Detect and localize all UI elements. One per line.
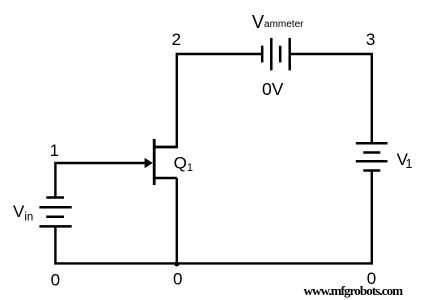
gate arrowhead of transistor Q1 [145,158,153,168]
wire: source of Q1 down to bottom rail [176,178,178,263]
svg-text:0V: 0V [262,79,284,99]
battery V_ammeter (0V source) plates [262,38,290,71]
wire: top rail from ammeter battery to node 3 and down to V1 [290,54,372,143]
svg-text:www.mfgrobots.com: www.mfgrobots.com [304,283,404,298]
wire: from V1 bottom down, bottom rail, and up to Vin bottom [55,171,371,264]
svg-text:1: 1 [50,141,59,160]
transistor Q1 source tap [154,177,177,179]
svg-text:3: 3 [366,30,375,49]
svg-text:0: 0 [173,270,182,289]
transistor Q1 channel bar [153,139,156,185]
svg-text:0: 0 [51,270,60,289]
transistor Q1 drain tap [154,146,177,148]
battery V1 plates [356,143,388,170]
wire: drain up from Q1 to node 2 and top rail to ammeter battery [154,54,262,147]
junction dot at node 0 [174,262,179,267]
battery Vin plates [39,198,71,227]
svg-text:2: 2 [172,30,181,49]
wire: gate lead from node 1 corner to transistor gate arrow [55,163,147,199]
